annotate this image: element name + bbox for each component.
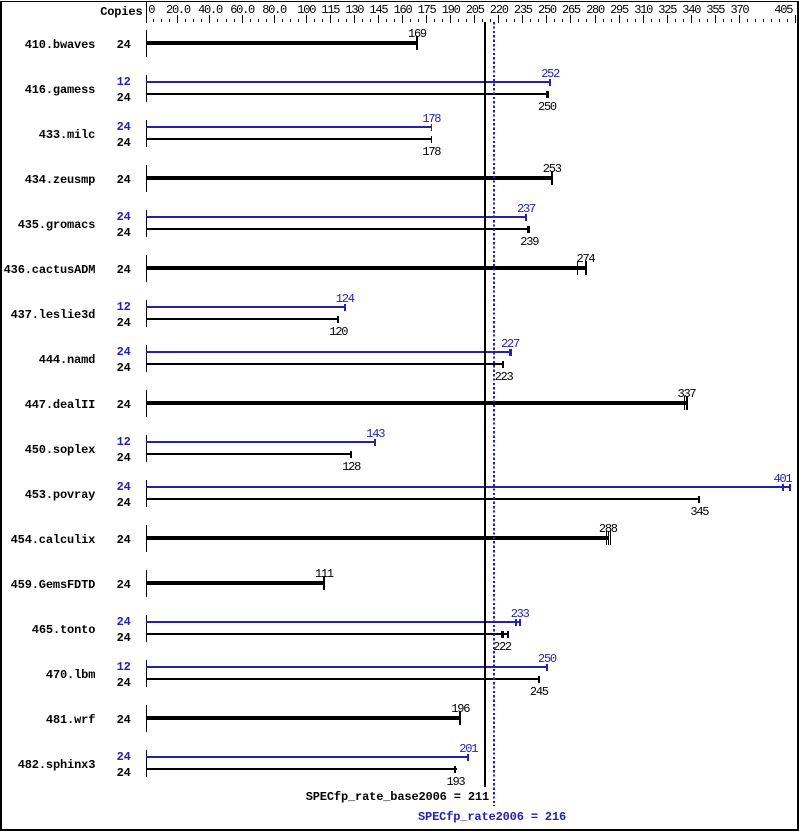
row 453.povray: [25, 488, 96, 502]
row 434.zeusmp: [25, 173, 96, 187]
row 433.milc: [39, 128, 95, 142]
peak mean label: [418, 810, 566, 824]
frame border right: [797, 1, 799, 831]
row 470.lbm: [46, 668, 95, 682]
row 444.namd: [39, 353, 95, 367]
row 447.dealII: [25, 398, 96, 412]
base mean label: [306, 790, 489, 804]
row 410.bwaves: [25, 38, 96, 52]
row 465.tonto: [32, 623, 95, 637]
frame border left: [0, 1, 2, 831]
row 437.leslie3d: [11, 308, 96, 322]
row 454.calculix: [11, 533, 96, 547]
x axis tick marks: [153, 19, 154, 23]
Copies header: [100, 5, 142, 19]
axis separator line: [146, 2, 147, 23]
peak mean dotted line 216: [493, 22, 495, 806]
frame border bottom: [0, 829, 799, 831]
row 459.GemsFDTD: [11, 578, 96, 592]
row 482.sphinx3: [18, 758, 96, 772]
row 416.gamess: [25, 83, 96, 97]
row 435.gromacs: [18, 218, 96, 232]
base mean line 211: [484, 22, 486, 787]
row 481.wrf: [46, 713, 95, 727]
row 436.cactusADM: [4, 263, 96, 277]
row 450.soplex: [25, 443, 96, 457]
x axis labels: [148, 3, 154, 17]
frame border top: [0, 1, 799, 2]
